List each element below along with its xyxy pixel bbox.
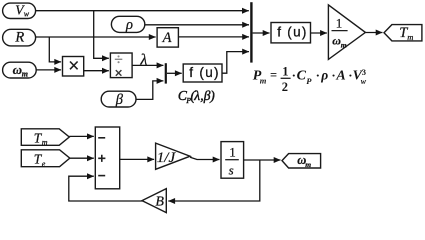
- svg-text:m: m: [42, 138, 48, 147]
- svg-text:1/J: 1/J: [157, 150, 177, 166]
- svg-text:ρ: ρ: [125, 17, 133, 33]
- svg-text:1: 1: [282, 65, 288, 79]
- svg-text:3: 3: [362, 67, 366, 77]
- svg-text:P: P: [306, 76, 312, 86]
- svg-text:A: A: [335, 68, 345, 83]
- svg-text:e: e: [42, 159, 46, 168]
- svg-text:ω: ω: [13, 62, 22, 77]
- svg-text:w: w: [361, 77, 367, 86]
- svg-text:·: ·: [292, 67, 296, 82]
- svg-text:m: m: [260, 76, 267, 86]
- svg-text:A: A: [162, 30, 172, 46]
- svg-text:B: B: [155, 195, 164, 210]
- svg-text:m: m: [407, 32, 413, 42]
- svg-text:ρ: ρ: [320, 67, 328, 82]
- svg-text:λ: λ: [193, 88, 200, 103]
- svg-text:·: ·: [316, 67, 320, 82]
- svg-text:w: w: [24, 9, 30, 18]
- svg-text:R: R: [14, 30, 24, 46]
- svg-text:·: ·: [331, 67, 335, 82]
- svg-text:): ): [209, 88, 215, 103]
- svg-text:1: 1: [229, 145, 236, 160]
- svg-text:m: m: [341, 40, 347, 49]
- svg-text:f (u): f (u): [189, 65, 220, 80]
- svg-text:λ: λ: [139, 52, 147, 69]
- svg-text:m: m: [22, 69, 28, 78]
- svg-text:β: β: [115, 92, 124, 108]
- svg-text:m: m: [305, 160, 311, 169]
- svg-text:C: C: [297, 68, 307, 83]
- svg-text:f (u): f (u): [277, 25, 308, 40]
- svg-text:=: =: [270, 68, 277, 82]
- svg-text:s: s: [229, 163, 234, 178]
- svg-text:2: 2: [282, 80, 288, 94]
- svg-text:1: 1: [336, 15, 343, 30]
